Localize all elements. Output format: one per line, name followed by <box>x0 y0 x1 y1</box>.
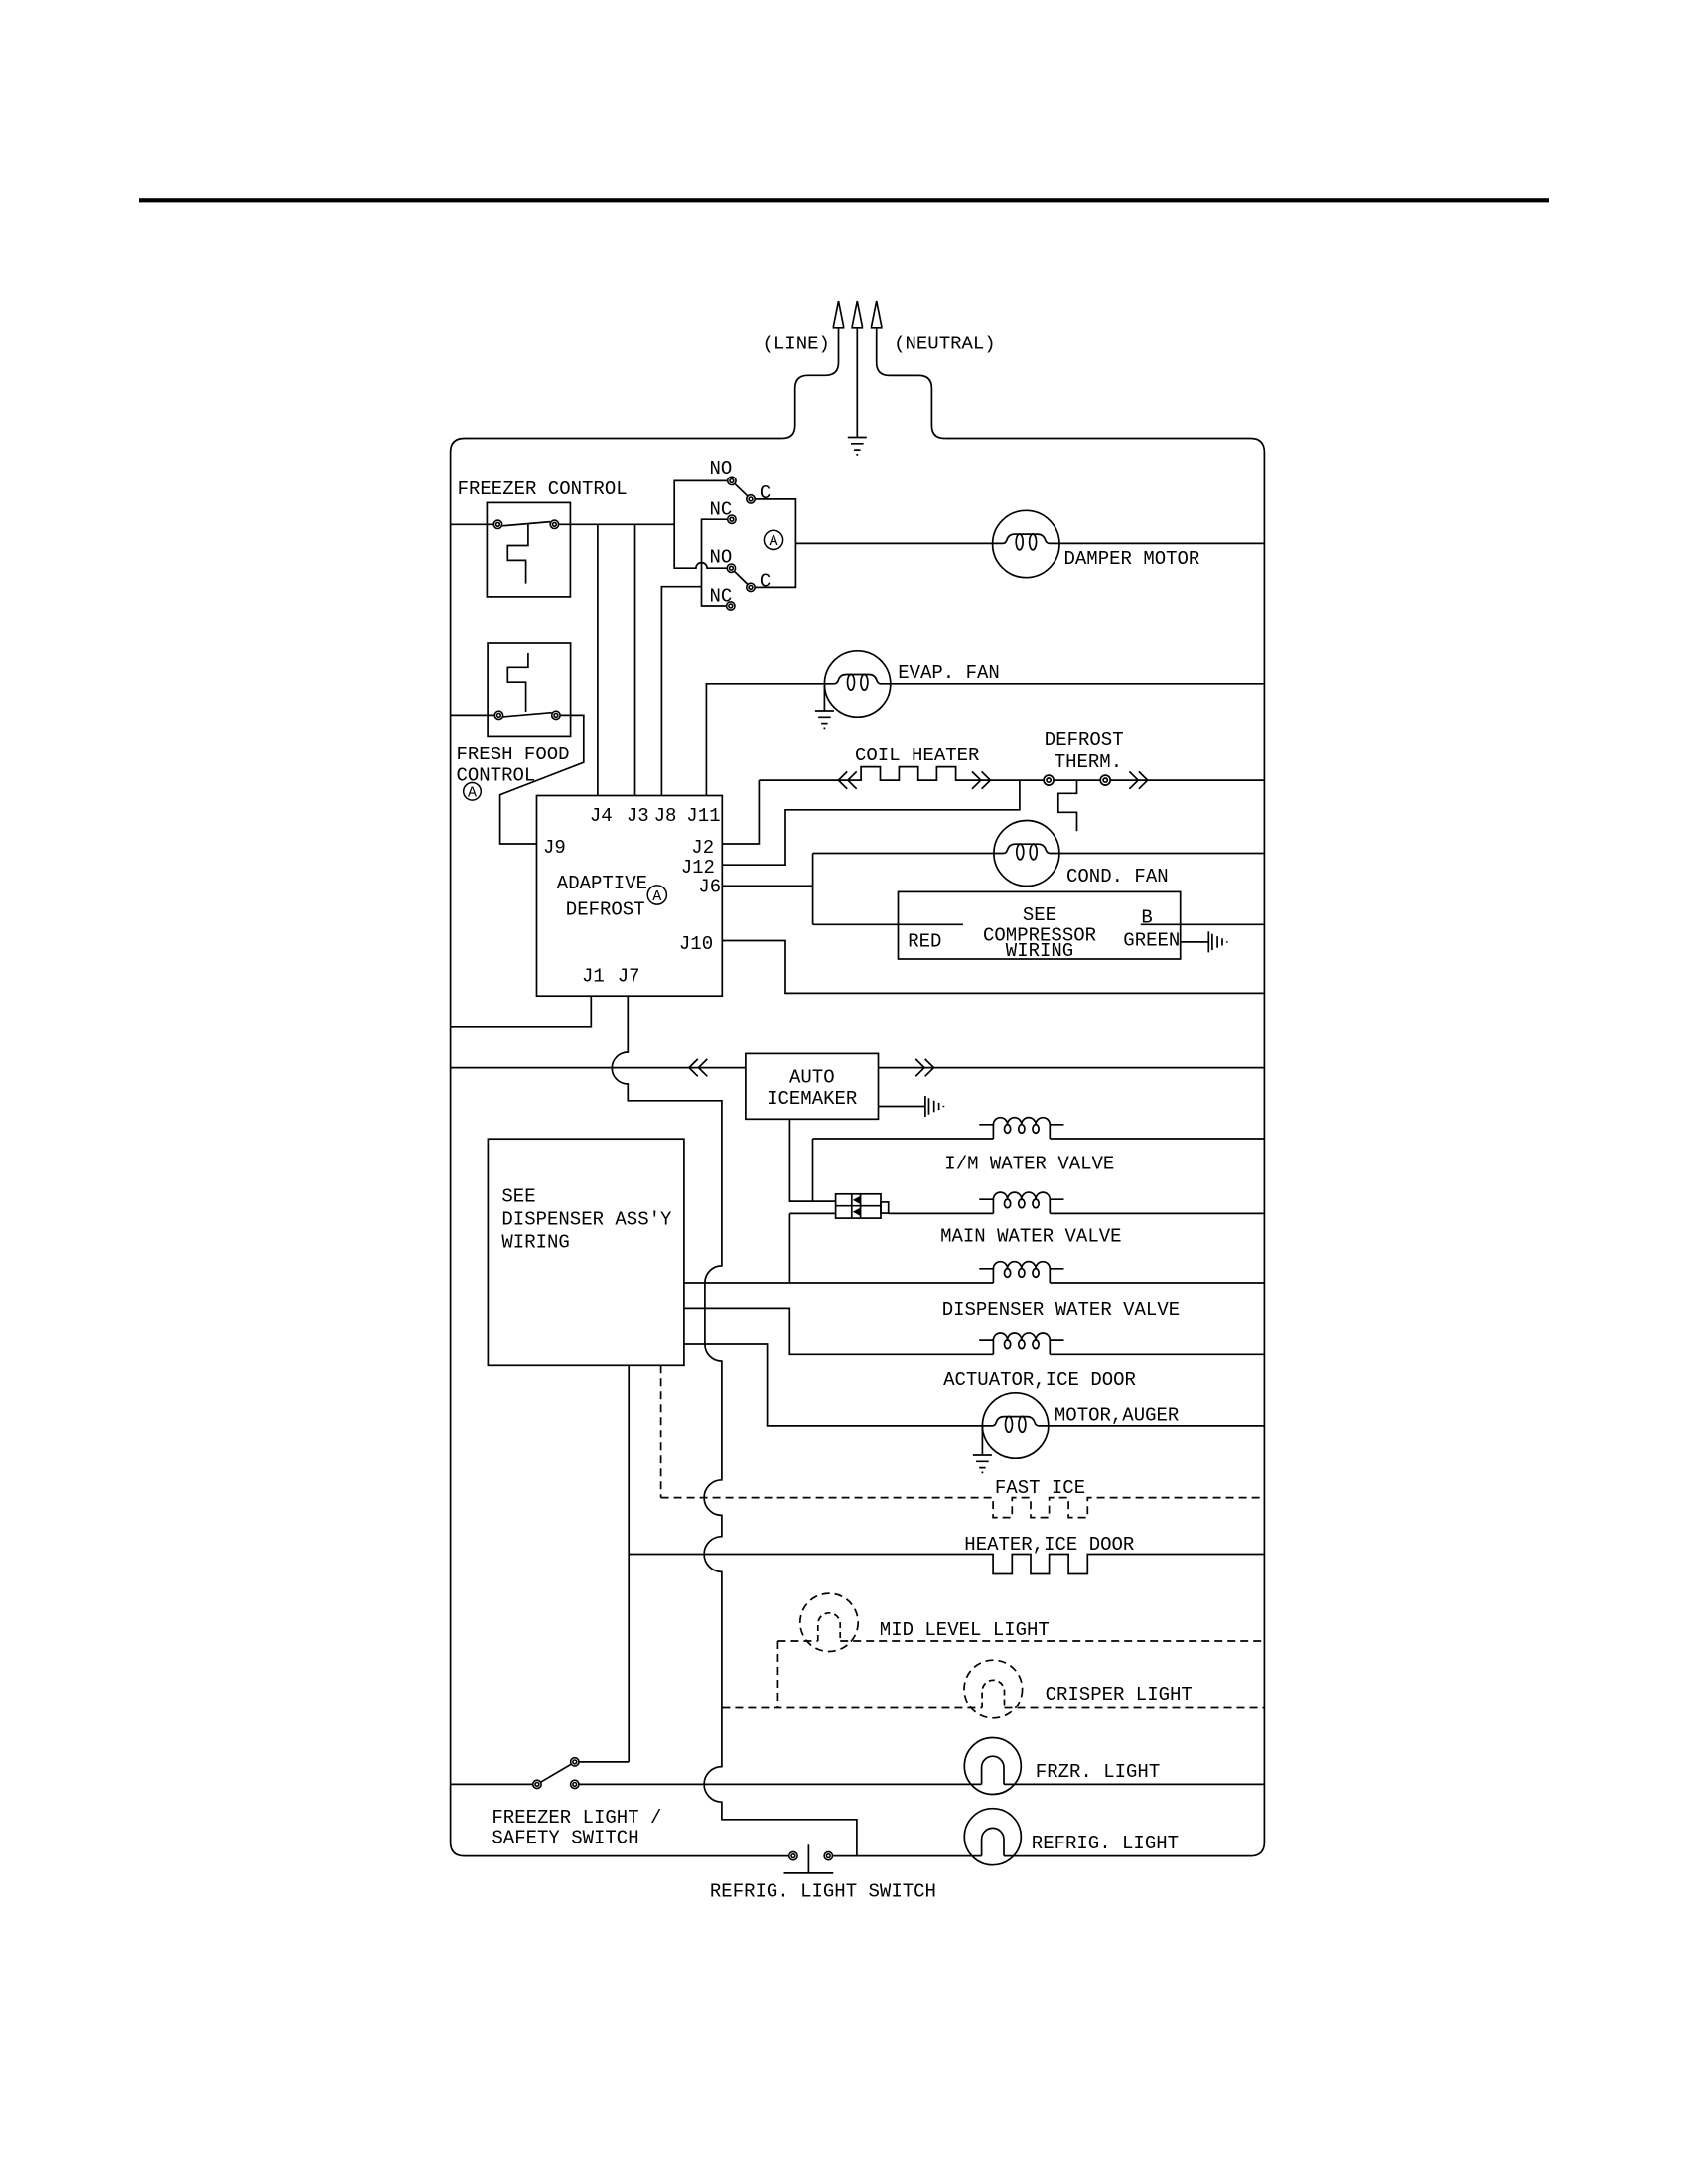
wire heater ice door row <box>629 1555 1264 1574</box>
outer enclosure border (left, top-left, bottom to switch gap) <box>451 439 789 1856</box>
wire J6 <box>722 885 812 887</box>
inductor actuator ice door <box>979 1333 1063 1354</box>
wire I/M water valve row <box>813 1138 1265 1140</box>
svg-text:J3: J3 <box>627 805 649 827</box>
wire fast ice dashed row <box>661 1498 1265 1518</box>
wire mid level light dashed row <box>777 1640 1264 1642</box>
freezer control switch blade <box>502 522 551 526</box>
wire icemaker pin to rectifier <box>789 1119 835 1201</box>
heater coil heater element and defrost row <box>759 767 1264 781</box>
ground at evap fan <box>823 684 825 711</box>
terminal NO1 <box>728 477 736 484</box>
svg-text:C: C <box>760 482 771 504</box>
wire plug line lead (LINE) <box>782 328 839 439</box>
wire icemaker ground lead <box>879 1106 925 1108</box>
wire J1 to left edge <box>451 996 592 1027</box>
svg-text:(LINE): (LINE) <box>763 334 830 355</box>
terminal safety switch upper <box>571 1758 579 1766</box>
svg-text:DEFROST: DEFROST <box>1045 729 1124 751</box>
wire evap fan to right edge <box>891 683 1265 685</box>
wire J2 to coil heater row <box>722 780 759 844</box>
freezer control thermostat element <box>507 525 528 584</box>
wire motor auger to right edge <box>1049 1425 1265 1427</box>
terminal NO2 <box>727 564 735 572</box>
svg-text:SEE: SEE <box>1023 904 1056 926</box>
wire main water valve row <box>889 1212 1265 1214</box>
wire bottom edge between refrig switch and refrig lamp <box>833 1855 982 1857</box>
auto icemaker box <box>746 1053 879 1119</box>
svg-text:(NEUTRAL): (NEUTRAL) <box>894 334 996 355</box>
wire J7 long run down to refrig light switch <box>612 996 857 1855</box>
wire cond fan riser <box>812 854 814 925</box>
terminal refrig switch left <box>789 1851 797 1859</box>
motor damper circle <box>993 510 1059 577</box>
lamp crisper light dashed circle <box>964 1660 1023 1718</box>
terminal fresh food right <box>552 711 560 719</box>
terminal defrost therm right <box>1100 775 1110 785</box>
wire damper switch output <box>795 542 992 544</box>
terminal refrig switch right <box>824 1851 832 1859</box>
svg-text:AUTO: AUTO <box>789 1067 835 1089</box>
svg-text:REFRIG. LIGHT SWITCH: REFRIG. LIGHT SWITCH <box>710 1881 936 1903</box>
svg-text:THERM.: THERM. <box>1055 751 1122 773</box>
svg-text:COND. FAN: COND. FAN <box>1066 866 1169 887</box>
damper switch body bracket <box>755 499 795 588</box>
plug prong ground <box>851 301 863 328</box>
svg-text:FREEZER LIGHT /: FREEZER LIGHT / <box>492 1807 661 1829</box>
svg-text:CRISPER LIGHT: CRISPER LIGHT <box>1046 1684 1193 1706</box>
wire frzr light row <box>579 1783 1264 1785</box>
wire J10 to right edge <box>722 941 1264 994</box>
wire icemaker output to right edge <box>879 1067 1265 1069</box>
svg-text:A: A <box>652 888 661 905</box>
wire J4 vertical <box>597 524 599 795</box>
coil damper motor <box>993 534 1058 550</box>
svg-text:J9: J9 <box>543 837 566 859</box>
svg-text:J8: J8 <box>654 805 677 827</box>
svg-text:I/M WATER VALVE: I/M WATER VALVE <box>944 1154 1114 1175</box>
wire cond fan to right edge <box>1059 853 1265 855</box>
svg-text:FREEZER CONTROL: FREEZER CONTROL <box>458 478 628 500</box>
svg-text:COIL HEATER: COIL HEATER <box>855 745 979 766</box>
circled A damper switch <box>764 530 782 549</box>
lamp refrig light circle <box>964 1809 1021 1865</box>
plug prong line <box>833 301 845 328</box>
terminal safety switch left <box>533 1780 541 1788</box>
wire bottom edge right of refrig lamp + right edge + top-right <box>944 439 1264 1856</box>
wire fast ice dashed riser <box>660 1365 662 1497</box>
wire freezer light switch riser <box>628 1365 630 1762</box>
svg-text:DEFROST: DEFROST <box>566 899 645 921</box>
circled A fresh food <box>464 783 482 801</box>
svg-text:J10: J10 <box>679 933 713 955</box>
svg-text:J11: J11 <box>686 805 720 827</box>
svg-text:WIRING: WIRING <box>501 1232 569 1254</box>
svg-text:MOTOR,AUGER: MOTOR,AUGER <box>1055 1405 1179 1427</box>
wire crisper light dashed row <box>722 1707 1264 1709</box>
wire dispenser water valve row <box>684 1282 1265 1284</box>
svg-text:ADAPTIVE: ADAPTIVE <box>557 873 647 894</box>
svg-text:FAST ICE: FAST ICE <box>995 1477 1085 1499</box>
damper switch blade 1 <box>735 483 748 496</box>
wire J3 vertical <box>634 524 636 795</box>
svg-text:HEATER,ICE DOOR: HEATER,ICE DOOR <box>964 1534 1134 1556</box>
svg-text:ICEMAKER: ICEMAKER <box>767 1088 857 1110</box>
svg-text:MID LEVEL LIGHT: MID LEVEL LIGHT <box>880 1619 1050 1641</box>
wire NC bracket of damper switch <box>702 519 728 606</box>
svg-text:EVAP. FAN: EVAP. FAN <box>898 662 1000 684</box>
wire left edge to fresh food control <box>451 714 495 716</box>
dispenser assy box <box>488 1139 684 1365</box>
ground at GREEN <box>1208 931 1227 952</box>
circled A adaptive defrost <box>647 886 666 904</box>
wire B to right edge <box>1141 923 1265 925</box>
wire J11 to evap fan <box>706 684 824 796</box>
wire mid-to-crisper dashed riser <box>776 1641 778 1708</box>
inductor dispenser water valve <box>979 1262 1063 1283</box>
rectifier body <box>836 1194 881 1218</box>
inductor I/M water valve <box>979 1118 1063 1139</box>
svg-text:ACTUATOR,ICE DOOR: ACTUATOR,ICE DOOR <box>943 1369 1136 1391</box>
wire I/M valve row riser <box>812 1139 814 1201</box>
terminal freezer control left <box>493 520 501 528</box>
svg-text:MAIN WATER VALVE: MAIN WATER VALVE <box>940 1226 1121 1248</box>
svg-text:B: B <box>1141 907 1152 929</box>
wire rectifier lower feed <box>789 1212 835 1214</box>
svg-text:J1: J1 <box>582 966 605 988</box>
connector chevrons right of coil heater <box>972 771 981 788</box>
wire safety switch upper output <box>579 1761 629 1763</box>
plug prong neutral <box>871 301 883 328</box>
svg-text:SAFETY SWITCH: SAFETY SWITCH <box>492 1828 638 1849</box>
adaptive defrost control box <box>537 796 723 997</box>
lamp filament frzr light <box>982 1756 1004 1784</box>
wire icemaker feed from left edge <box>451 1067 746 1069</box>
lamp filament crisper light <box>982 1680 1004 1707</box>
wire J12 path to defrost row <box>722 780 1020 865</box>
wire left edge to freezer control <box>451 523 494 525</box>
wire cond fan left <box>813 853 994 855</box>
svg-text:J7: J7 <box>618 966 640 988</box>
wire fresh food output to J9 <box>500 715 584 844</box>
wire freezer control output to damper switch <box>559 523 675 525</box>
terminal freezer control right <box>550 520 558 528</box>
svg-text:RED: RED <box>908 931 941 953</box>
freezer control box <box>487 502 570 597</box>
svg-text:NO: NO <box>710 547 733 569</box>
refrig light switch plunger <box>784 1844 834 1873</box>
rectifier tab <box>881 1202 889 1213</box>
svg-text:J4: J4 <box>590 805 613 827</box>
coil motor auger <box>983 1417 1049 1433</box>
terminal NC1 <box>728 515 736 523</box>
lamp filament mid level light <box>818 1613 840 1641</box>
page header rule <box>139 198 1549 202</box>
svg-text:FRESH FOOD: FRESH FOOD <box>457 744 570 765</box>
wire rectifier to dispenser valve row <box>788 1213 790 1283</box>
svg-text:NC: NC <box>710 586 733 608</box>
svg-text:C: C <box>760 571 771 593</box>
terminal NC2 <box>727 602 735 610</box>
svg-text:NO: NO <box>710 458 733 479</box>
ground symbol at plug <box>848 438 867 455</box>
wire frzr light row left <box>451 1783 533 1785</box>
freezer light safety switch blade <box>541 1764 572 1782</box>
defrost thermostat release hook <box>1058 780 1077 831</box>
wire actuator ice door path <box>684 1308 1265 1354</box>
terminal C2 <box>747 583 755 591</box>
coil evap fan <box>825 674 891 690</box>
compressor wiring box <box>899 891 1181 959</box>
inductor main water valve <box>979 1192 1063 1213</box>
svg-text:A: A <box>468 785 477 802</box>
svg-text:SEE: SEE <box>501 1186 535 1208</box>
terminal defrost therm left <box>1044 775 1054 785</box>
svg-text:A: A <box>770 533 778 550</box>
connector chevrons left of coil heater <box>838 771 847 788</box>
svg-text:DISPENSER ASS'Y: DISPENSER ASS'Y <box>501 1209 672 1231</box>
svg-text:GREEN: GREEN <box>1123 930 1180 952</box>
ground at motor auger <box>981 1426 983 1455</box>
connector chevrons icemaker output <box>915 1059 924 1076</box>
terminal fresh food left <box>494 711 502 719</box>
ground at icemaker <box>925 1096 944 1117</box>
svg-text:J6: J6 <box>698 877 721 898</box>
svg-text:DAMPER MOTOR: DAMPER MOTOR <box>1064 548 1200 570</box>
damper switch blade 2 <box>734 571 748 585</box>
lamp filament refrig light <box>982 1828 1004 1855</box>
wire motor auger path <box>684 1344 983 1426</box>
svg-text:J2: J2 <box>691 837 714 859</box>
diode rectifier bottom <box>853 1208 860 1216</box>
wire RED into compressor box <box>813 923 963 925</box>
connector chevrons right of defrost therm <box>1129 771 1138 788</box>
svg-text:WIRING: WIRING <box>1006 940 1073 962</box>
motor evap fan circle <box>824 651 890 717</box>
wire GREEN to ground <box>1181 941 1208 943</box>
wire NO bracket of damper switch <box>674 480 728 568</box>
svg-text:REFRIG. LIGHT: REFRIG. LIGHT <box>1032 1833 1179 1854</box>
wire damper motor to right edge <box>1059 542 1264 544</box>
wire J8 tap from NC bracket <box>661 587 701 796</box>
fresh food control box <box>488 643 570 736</box>
svg-text:DISPENSER WATER VALVE: DISPENSER WATER VALVE <box>942 1299 1180 1321</box>
motor cond fan circle <box>994 821 1059 887</box>
lamp frzr light circle <box>964 1738 1021 1795</box>
fresh food control switch blade <box>503 713 552 717</box>
fresh food control thermostat element <box>507 653 528 712</box>
coil cond fan <box>994 844 1059 860</box>
diode rectifier top <box>853 1196 860 1204</box>
connector chevrons icemaker feed <box>689 1059 698 1076</box>
svg-text:NC: NC <box>710 499 733 521</box>
motor auger circle <box>982 1393 1048 1458</box>
wire plug ground lead <box>856 328 858 438</box>
lamp mid level light dashed circle <box>800 1593 858 1651</box>
terminal C1 <box>747 495 755 503</box>
wire plug neutral lead (NEUTRAL) <box>877 328 945 439</box>
terminal safety switch lower <box>571 1780 579 1788</box>
svg-text:FRZR. LIGHT: FRZR. LIGHT <box>1036 1761 1160 1783</box>
